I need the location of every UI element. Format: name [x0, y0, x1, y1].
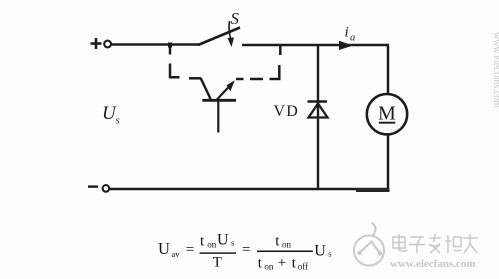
diode VD cathode bar [308, 100, 328, 103]
svg-text:s: s [231, 238, 234, 248]
svg-text:=: = [186, 242, 194, 258]
top wire left segment [111, 43, 199, 45]
dashed vertical left (to transistor) [170, 44, 180, 77]
svg-text:off: off [298, 261, 308, 271]
dashed vertical right (up to top wire) [270, 45, 281, 80]
transistor Q base bar [202, 99, 236, 102]
dashed horizontal right (emitter to right leg) [236, 78, 263, 81]
diode VD triangle [309, 104, 328, 118]
svg-text:on: on [282, 240, 292, 250]
plus terminal [91, 38, 102, 49]
svg-text:on: on [264, 261, 274, 271]
svg-text:U: U [158, 239, 170, 258]
motor lead bottom [387, 135, 390, 190]
switch arrow [228, 21, 235, 47]
fraction 1 bar [200, 252, 237, 253]
switch S blade [198, 28, 240, 46]
svg-text:www.elecfans.com: www.elecfans.com [491, 32, 499, 108]
motor lead top [387, 45, 390, 94]
watermark chinese characters 电子发烧友 (faux strokes) [393, 234, 478, 253]
svg-text:www.elecfans.com: www.elecfans.com [390, 258, 476, 270]
dashed horizontal left [189, 77, 201, 80]
minus terminal [88, 185, 98, 187]
watermark logo (bottom right) [354, 223, 384, 266]
svg-text:T: T [213, 254, 222, 270]
fraction 2 bar [257, 251, 313, 253]
bottom wire thick smudge right [356, 188, 390, 192]
motor M underline [379, 122, 396, 124]
formula: U_av = t_on U_s / T = t_on/(t_on+t_off) U_s [158, 232, 332, 272]
plus terminal circle [104, 41, 111, 48]
minus terminal circle [103, 185, 110, 192]
svg-text:U: U [314, 242, 326, 259]
transistor Q base lead down [217, 102, 219, 133]
transistor Q collector diagonal [201, 78, 211, 99]
svg-text:=: = [242, 242, 250, 258]
svg-text:s: s [328, 249, 331, 259]
svg-text:i: i [345, 25, 349, 41]
svg-text:M: M [378, 103, 396, 125]
svg-text:S: S [231, 9, 240, 28]
motor M circle [367, 94, 407, 134]
svg-text:av: av [172, 249, 181, 259]
svg-text:+: + [278, 255, 286, 271]
svg-text:s: s [116, 115, 120, 127]
node junction at 170 [168, 43, 172, 48]
transistor Q emitter arrow [217, 80, 235, 100]
current arrow i_a [339, 41, 353, 50]
svg-text:VD: VD [274, 103, 300, 120]
svg-text:a: a [350, 33, 355, 44]
svg-text:U: U [217, 232, 229, 249]
svg-text:on: on [207, 240, 217, 250]
diode VD vertical wire [317, 45, 319, 188]
bottom wire [110, 188, 390, 191]
top wire right segment [242, 44, 389, 46]
